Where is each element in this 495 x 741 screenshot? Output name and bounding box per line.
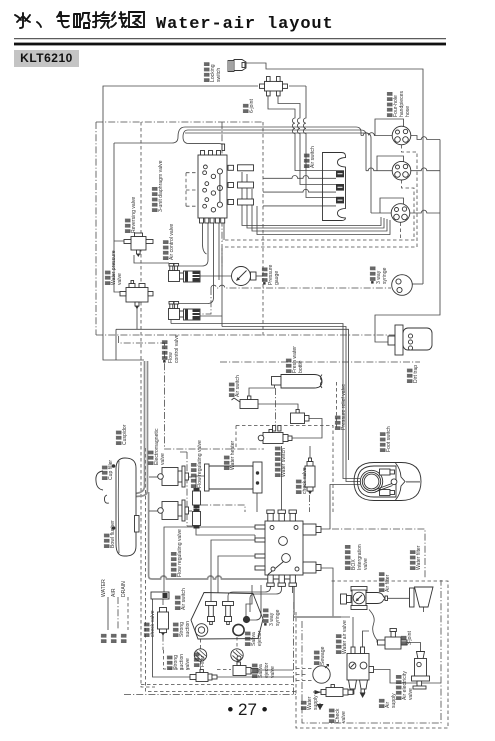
svg-text:Flow regulating valve: Flow regulating valve bbox=[197, 440, 203, 488]
svg-text:hose: hose bbox=[405, 106, 411, 117]
svg-text:valve: valve bbox=[408, 688, 414, 700]
svg-text:syringe: syringe bbox=[275, 609, 281, 626]
svg-text:bottle: bottle bbox=[298, 360, 304, 373]
svg-text:3-joint: 3-joint bbox=[407, 631, 413, 645]
svg-text:Water-air layout: Water-air layout bbox=[156, 15, 334, 34]
svg-text:Air switch: Air switch bbox=[310, 146, 316, 168]
svg-text:Air switch: Air switch bbox=[181, 588, 187, 610]
svg-text:Pressure relief valve: Pressure relief valve bbox=[341, 384, 347, 430]
svg-text:3-unit diaphragm valve: 3-unit diaphragm valve bbox=[158, 160, 164, 212]
svg-text:Sewage: Sewage bbox=[320, 646, 326, 665]
svg-text:Dirt trap: Dirt trap bbox=[413, 365, 419, 383]
svg-text:WATER: WATER bbox=[101, 579, 107, 597]
svg-text:ejector: ejector bbox=[257, 630, 263, 646]
svg-text:check valve: check valve bbox=[302, 467, 308, 494]
svg-text:▓▓: ▓▓ bbox=[101, 632, 107, 643]
svg-text:▓▓: ▓▓ bbox=[121, 632, 127, 643]
svg-text:AIR: AIR bbox=[111, 588, 117, 597]
svg-text:valve: valve bbox=[185, 658, 191, 670]
svg-text:Cuspidor: Cuspidor bbox=[122, 424, 128, 445]
svg-text:Flow regulating valve: Flow regulating valve bbox=[177, 529, 183, 577]
svg-text:Air control valve: Air control valve bbox=[169, 224, 175, 260]
svg-text:Water switch: Water switch bbox=[281, 448, 287, 477]
svg-text:Air switch: Air switch bbox=[235, 375, 241, 397]
svg-text:Air filter: Air filter bbox=[385, 574, 391, 592]
svg-text:▓▓: ▓▓ bbox=[111, 632, 117, 643]
svg-text:syringe: syringe bbox=[382, 267, 388, 284]
svg-text:DRAIN: DRAIN bbox=[121, 581, 127, 597]
svg-text:suction: suction bbox=[185, 621, 191, 637]
svg-text:Filter: Filter bbox=[200, 655, 206, 667]
svg-text:valve: valve bbox=[160, 453, 166, 465]
svg-text:Cup filler: Cup filler bbox=[108, 460, 114, 480]
svg-text:Water filter: Water filter bbox=[416, 545, 422, 570]
svg-text:valve: valve bbox=[363, 558, 369, 570]
svg-text:Bowl flusher: Bowl flusher bbox=[110, 520, 116, 548]
svg-text:6-joint: 6-joint bbox=[249, 99, 255, 113]
svg-text:valve: valve bbox=[270, 666, 276, 678]
svg-text:Reversing valve: Reversing valve bbox=[131, 197, 137, 233]
svg-text:check valve: check valve bbox=[150, 610, 156, 637]
svg-text:Water heater: Water heater bbox=[230, 440, 236, 470]
svg-text:gauge: gauge bbox=[274, 271, 280, 285]
svg-text:Foot switch: Foot switch bbox=[386, 426, 392, 452]
svg-text:valve: valve bbox=[117, 273, 123, 285]
svg-text:switch: switch bbox=[216, 68, 222, 82]
svg-text:control valve: control valve bbox=[174, 334, 180, 363]
svg-text:Water air valve: Water air valve bbox=[342, 620, 348, 654]
